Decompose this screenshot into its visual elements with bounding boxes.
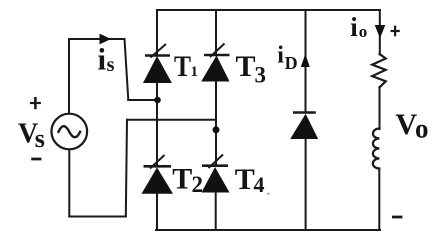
svg-text:s: s: [107, 54, 115, 76]
svg-text:D: D: [285, 53, 298, 73]
svg-text:1: 1: [191, 64, 199, 80]
svg-text:i: i: [98, 42, 107, 77]
svg-text:T: T: [235, 163, 255, 196]
svg-text:T: T: [236, 50, 256, 83]
svg-text:s: s: [35, 124, 45, 153]
svg-text:T: T: [174, 50, 191, 83]
svg-text:2: 2: [192, 172, 204, 197]
svg-text:4: 4: [254, 172, 265, 197]
svg-text:i: i: [350, 12, 358, 42]
svg-text:T: T: [172, 163, 192, 196]
svg-text:o: o: [359, 22, 368, 41]
svg-text:o: o: [415, 114, 429, 144]
svg-text:3: 3: [255, 62, 267, 87]
svg-text:i: i: [277, 43, 284, 69]
